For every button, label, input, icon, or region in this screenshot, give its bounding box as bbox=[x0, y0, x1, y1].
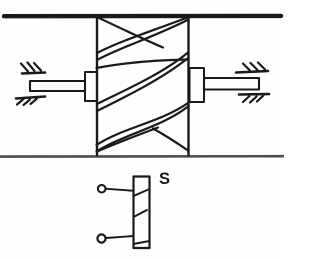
left hub bbox=[85, 72, 97, 101]
wire top wall line bbox=[4, 14, 281, 19]
right shaft bbox=[204, 78, 259, 90]
upper-left support hatches bbox=[21, 63, 41, 72]
lower terminal lead bbox=[107, 236, 134, 238]
helix back line mid bbox=[97, 60, 189, 69]
strip hatch 3 bbox=[134, 241, 150, 244]
right hub bbox=[190, 68, 205, 102]
helix band A lower curve bbox=[97, 20, 188, 60]
upper-left support baseline bbox=[22, 73, 45, 74]
helix band B lower curve bbox=[97, 58, 188, 111]
wire bottom ground line bbox=[0, 155, 284, 158]
helix band A upper curve bbox=[97, 18, 188, 54]
lower-right support hatches bbox=[243, 96, 264, 103]
lower-right support baseline bbox=[239, 93, 269, 96]
helix band C upper curve bbox=[97, 103, 189, 145]
upper terminal lead bbox=[107, 189, 134, 191]
helix band B upper curve bbox=[97, 53, 188, 105]
drum right edge bbox=[187, 17, 189, 155]
helix back line top-left bbox=[98, 18, 163, 48]
helix band C lower curve bbox=[97, 107, 189, 152]
left shaft bbox=[30, 81, 85, 91]
upper terminal circle bbox=[98, 185, 106, 193]
lower-left support hatches bbox=[17, 99, 37, 106]
strip hatch 2 bbox=[134, 210, 148, 217]
helix back line bottom-left leg bbox=[97, 128, 158, 152]
screen strip S bbox=[134, 177, 150, 249]
helix back line bottom-right leg bbox=[153, 129, 188, 151]
lower terminal circle bbox=[97, 234, 105, 242]
svg-text:S: S bbox=[159, 170, 170, 188]
lower-left support baseline bbox=[16, 97, 45, 99]
upper-right support baseline bbox=[236, 71, 268, 73]
strip hatch 1 bbox=[134, 189, 150, 196]
upper-right support hatches bbox=[243, 63, 265, 71]
drum left edge bbox=[96, 17, 98, 155]
